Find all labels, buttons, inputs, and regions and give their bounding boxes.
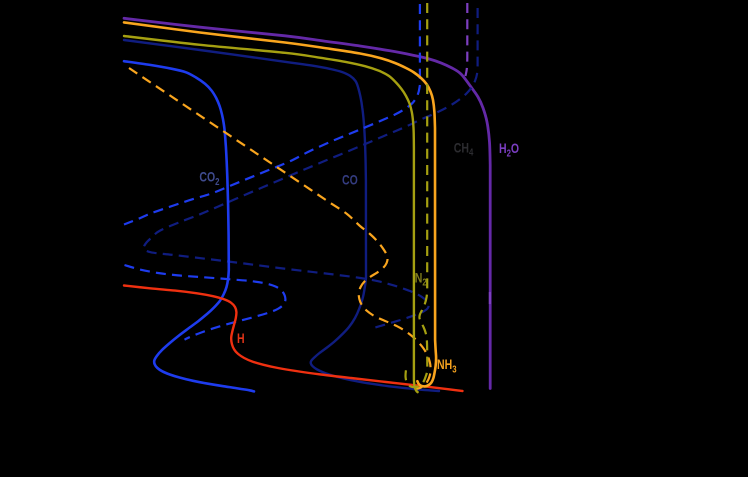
curve H2O solid purple [124, 18, 490, 388]
svg-text:CO2: CO2 [199, 169, 219, 187]
curve CO2 equilibrium dashed blue upper [124, 4, 420, 225]
svg-text:CO: CO [342, 172, 358, 188]
curve N2 solid olive [124, 36, 418, 392]
H2O equilibrium dash overlap on H2O vertical [489, 292, 491, 304]
svg-text:H2O: H2O [499, 141, 519, 159]
curve NH3 equilibrium dashed orange [129, 68, 431, 389]
curve H2O equilibrium dashed purple [465, 3, 467, 76]
svg-text:CH4: CH4 [454, 140, 474, 158]
curve CO2 equilibrium dashed blue lower [125, 265, 286, 340]
svg-text:H: H [237, 331, 245, 347]
curve CO solid navy [124, 40, 439, 391]
svg-text:N2: N2 [415, 270, 427, 288]
curve NH3 solid orange [124, 22, 436, 386]
svg-text:NH3: NH3 [437, 357, 457, 375]
curve CO equilibrium dashed navy [144, 8, 478, 329]
curve H solid red [124, 286, 463, 392]
curve CO2 solid blue [124, 61, 254, 391]
curve N2 equilibrium dashed olive [406, 3, 428, 387]
